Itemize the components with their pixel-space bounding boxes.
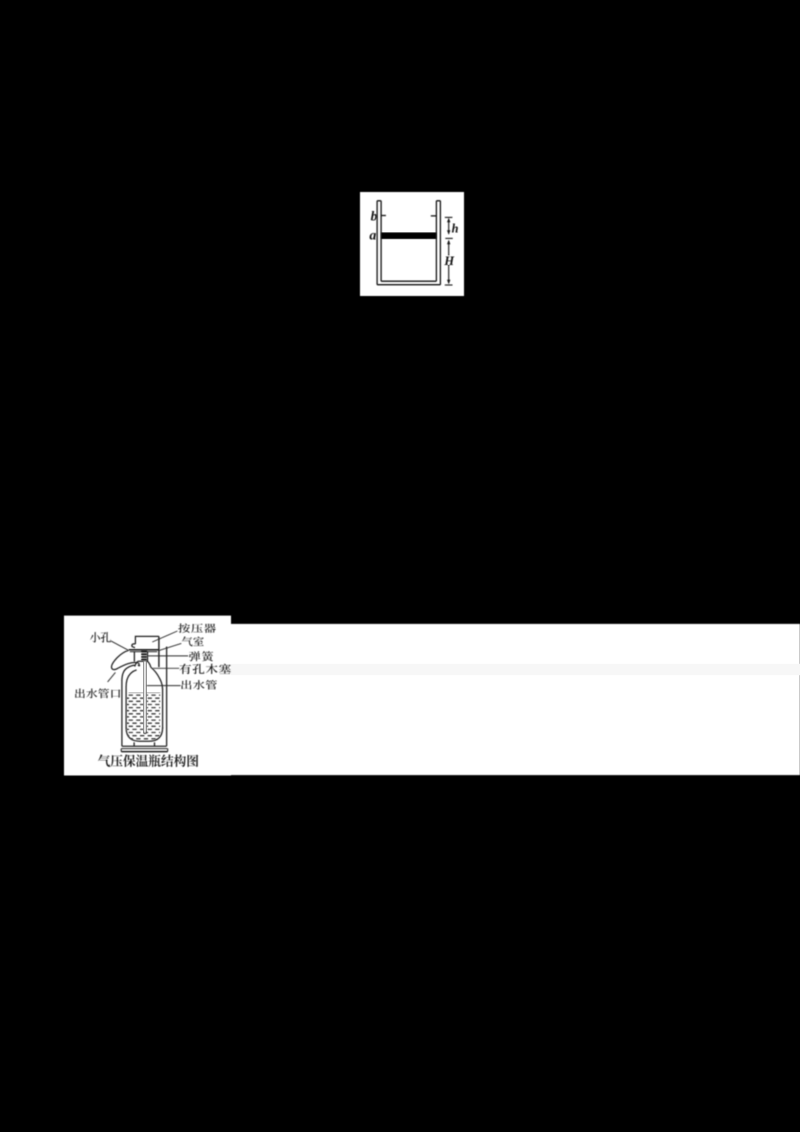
water surface line [129,691,161,693]
spring (coil) [141,650,147,660]
label: small hole (小孔) [90,632,111,642]
label: spout mouth (出水管口) [75,688,120,698]
base plate bottom [121,751,168,753]
label: air chamber (气室) [182,636,204,646]
stopper left side [133,652,135,662]
water (dashes) [125,692,160,739]
faint residual band [231,664,800,675]
bottle liner right shoulder [151,667,163,728]
vessel right wall [436,201,440,285]
svg-text:H: H [443,254,455,268]
H dimension arrow [448,241,450,283]
label: spring (弹簧) [189,651,213,661]
leader line for presser [152,631,177,642]
spout lower curve [119,662,140,667]
caption: 气压保温瓶结构图 [98,754,198,767]
leader line for outlet pipe [147,685,181,687]
presser left brim [132,644,136,648]
white backing for H label [446,256,453,266]
leader line for spring [148,655,189,657]
svg-text:h: h [452,221,459,235]
liner bottom [126,728,163,742]
svg-text:a: a [369,229,376,244]
leader line for cork [153,667,179,669]
svg-text:b: b [371,209,378,224]
label: perforated cork (有孔木塞) [179,664,230,674]
top diagram white panel [360,192,464,296]
spout upper curve [111,650,128,669]
shell right wall [166,647,168,747]
vessel bottom [377,281,440,285]
dimension tick bottom (vessel bottom) [445,284,453,286]
collar plate lower line [130,651,157,653]
bottom strip white panel (diagram) [64,616,231,776]
dimension tick middle (piston bottom) [445,237,453,239]
shell bottom [122,745,167,747]
leader line for air chamber [159,643,182,650]
label: presser (按压器) [178,623,216,633]
leader line for small hole [111,641,128,650]
leader line for spout mouth [108,672,116,682]
base plate [121,749,168,752]
dimension tick top (level b) [445,216,453,218]
vessel left wall [377,201,381,285]
bottom strip white band (right) [231,624,800,775]
level-b tick right [431,215,437,217]
level-b tick left [381,215,386,217]
foot right [154,742,156,746]
h dimension arrow [448,219,450,233]
air chamber left wall [158,636,160,667]
bottle liner left wall and shoulder [126,670,137,729]
bottle outer left wall and shoulder [122,665,135,746]
cork (perforated stopper) [135,661,151,667]
outlet tube [143,661,146,733]
foot left [133,742,135,746]
label: outlet pipe (出水管) [181,680,217,690]
collar plate [129,649,159,651]
spout junction blob [138,664,141,666]
presser knob [135,636,159,644]
piston (black bar) at a [381,232,436,239]
stopper right side [147,652,149,662]
